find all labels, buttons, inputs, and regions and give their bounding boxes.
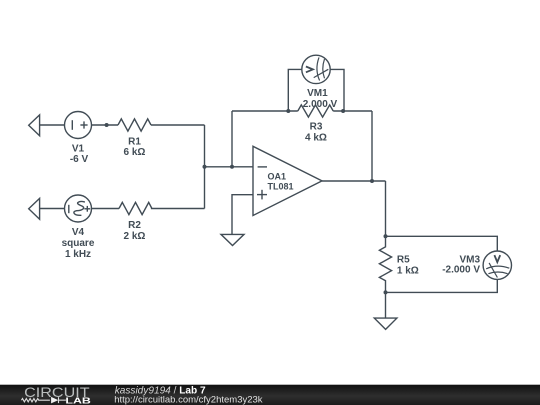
svg-text:VM1: VM1: [307, 88, 328, 99]
voltmeter VM3: [483, 251, 511, 279]
svg-text:2 kΩ: 2 kΩ: [124, 231, 146, 242]
wire to VM3 top: [386, 236, 498, 251]
svg-text:-2.000 V: -2.000 V: [442, 265, 480, 276]
footer bar: [0, 385, 540, 405]
voltmeter VM1: [302, 55, 330, 83]
voltmeter VM1 leads: [288, 69, 302, 111]
node dot: [384, 234, 388, 238]
wire op-amp + input: [232, 195, 253, 235]
ground: [221, 234, 244, 245]
wire: [151, 208, 205, 210]
wire feedback up: [231, 111, 233, 167]
svg-text:http://circuitlab.com/cfy2htem: http://circuitlab.com/cfy2htem3y23k: [114, 394, 263, 405]
wire: [205, 166, 254, 168]
voltage source V4: [65, 195, 92, 222]
wire to VM3 bottom: [386, 279, 498, 292]
wire bus: [204, 125, 206, 209]
svg-text:R2: R2: [128, 220, 141, 231]
logo diode: [51, 397, 58, 404]
wire: [40, 124, 65, 126]
svg-text:TL081: TL081: [268, 182, 294, 192]
wire: [232, 110, 298, 112]
svg-text:square: square: [62, 238, 95, 249]
wire: [385, 181, 387, 236]
wire: [92, 208, 120, 210]
node dot: [341, 109, 345, 113]
svg-text:R3: R3: [310, 122, 323, 133]
op-amp OA1: [253, 146, 322, 215]
svg-text:1 kΩ: 1 kΩ: [397, 266, 419, 277]
svg-text:OA1: OA1: [268, 172, 287, 182]
svg-text:V1: V1: [72, 144, 85, 155]
resistor R1: [118, 119, 151, 131]
port arrow input V1: [29, 115, 40, 136]
wire feedback down: [371, 111, 373, 181]
node dot: [203, 165, 207, 169]
svg-text:V4: V4: [72, 227, 85, 238]
resistor R2: [119, 202, 152, 214]
node dot: [384, 290, 388, 294]
port arrow input V4: [29, 198, 40, 219]
resistor R3: [298, 105, 333, 117]
resistor R5: [379, 236, 391, 292]
wire ground lead: [385, 292, 387, 318]
node dot: [230, 165, 234, 169]
svg-text:R5: R5: [397, 255, 410, 266]
node dot: [286, 109, 290, 113]
voltage source V1: [65, 112, 92, 139]
wire: [92, 124, 119, 126]
svg-text:6 kΩ: 6 kΩ: [124, 147, 146, 158]
node dot: [105, 123, 109, 127]
logo resistor zigzag: [22, 397, 66, 404]
svg-text:4 kΩ: 4 kΩ: [305, 133, 327, 144]
wire: [40, 208, 65, 210]
wire: [151, 124, 205, 126]
wire output: [322, 180, 386, 182]
ground: [374, 318, 397, 329]
svg-text:1 kHz: 1 kHz: [65, 249, 91, 260]
svg-text:2.000 V: 2.000 V: [303, 99, 338, 110]
svg-text:LAB: LAB: [65, 397, 91, 405]
wire: [333, 110, 372, 112]
svg-text:-6 V: -6 V: [70, 154, 89, 165]
node dot: [370, 179, 374, 183]
svg-text:R1: R1: [128, 136, 141, 147]
